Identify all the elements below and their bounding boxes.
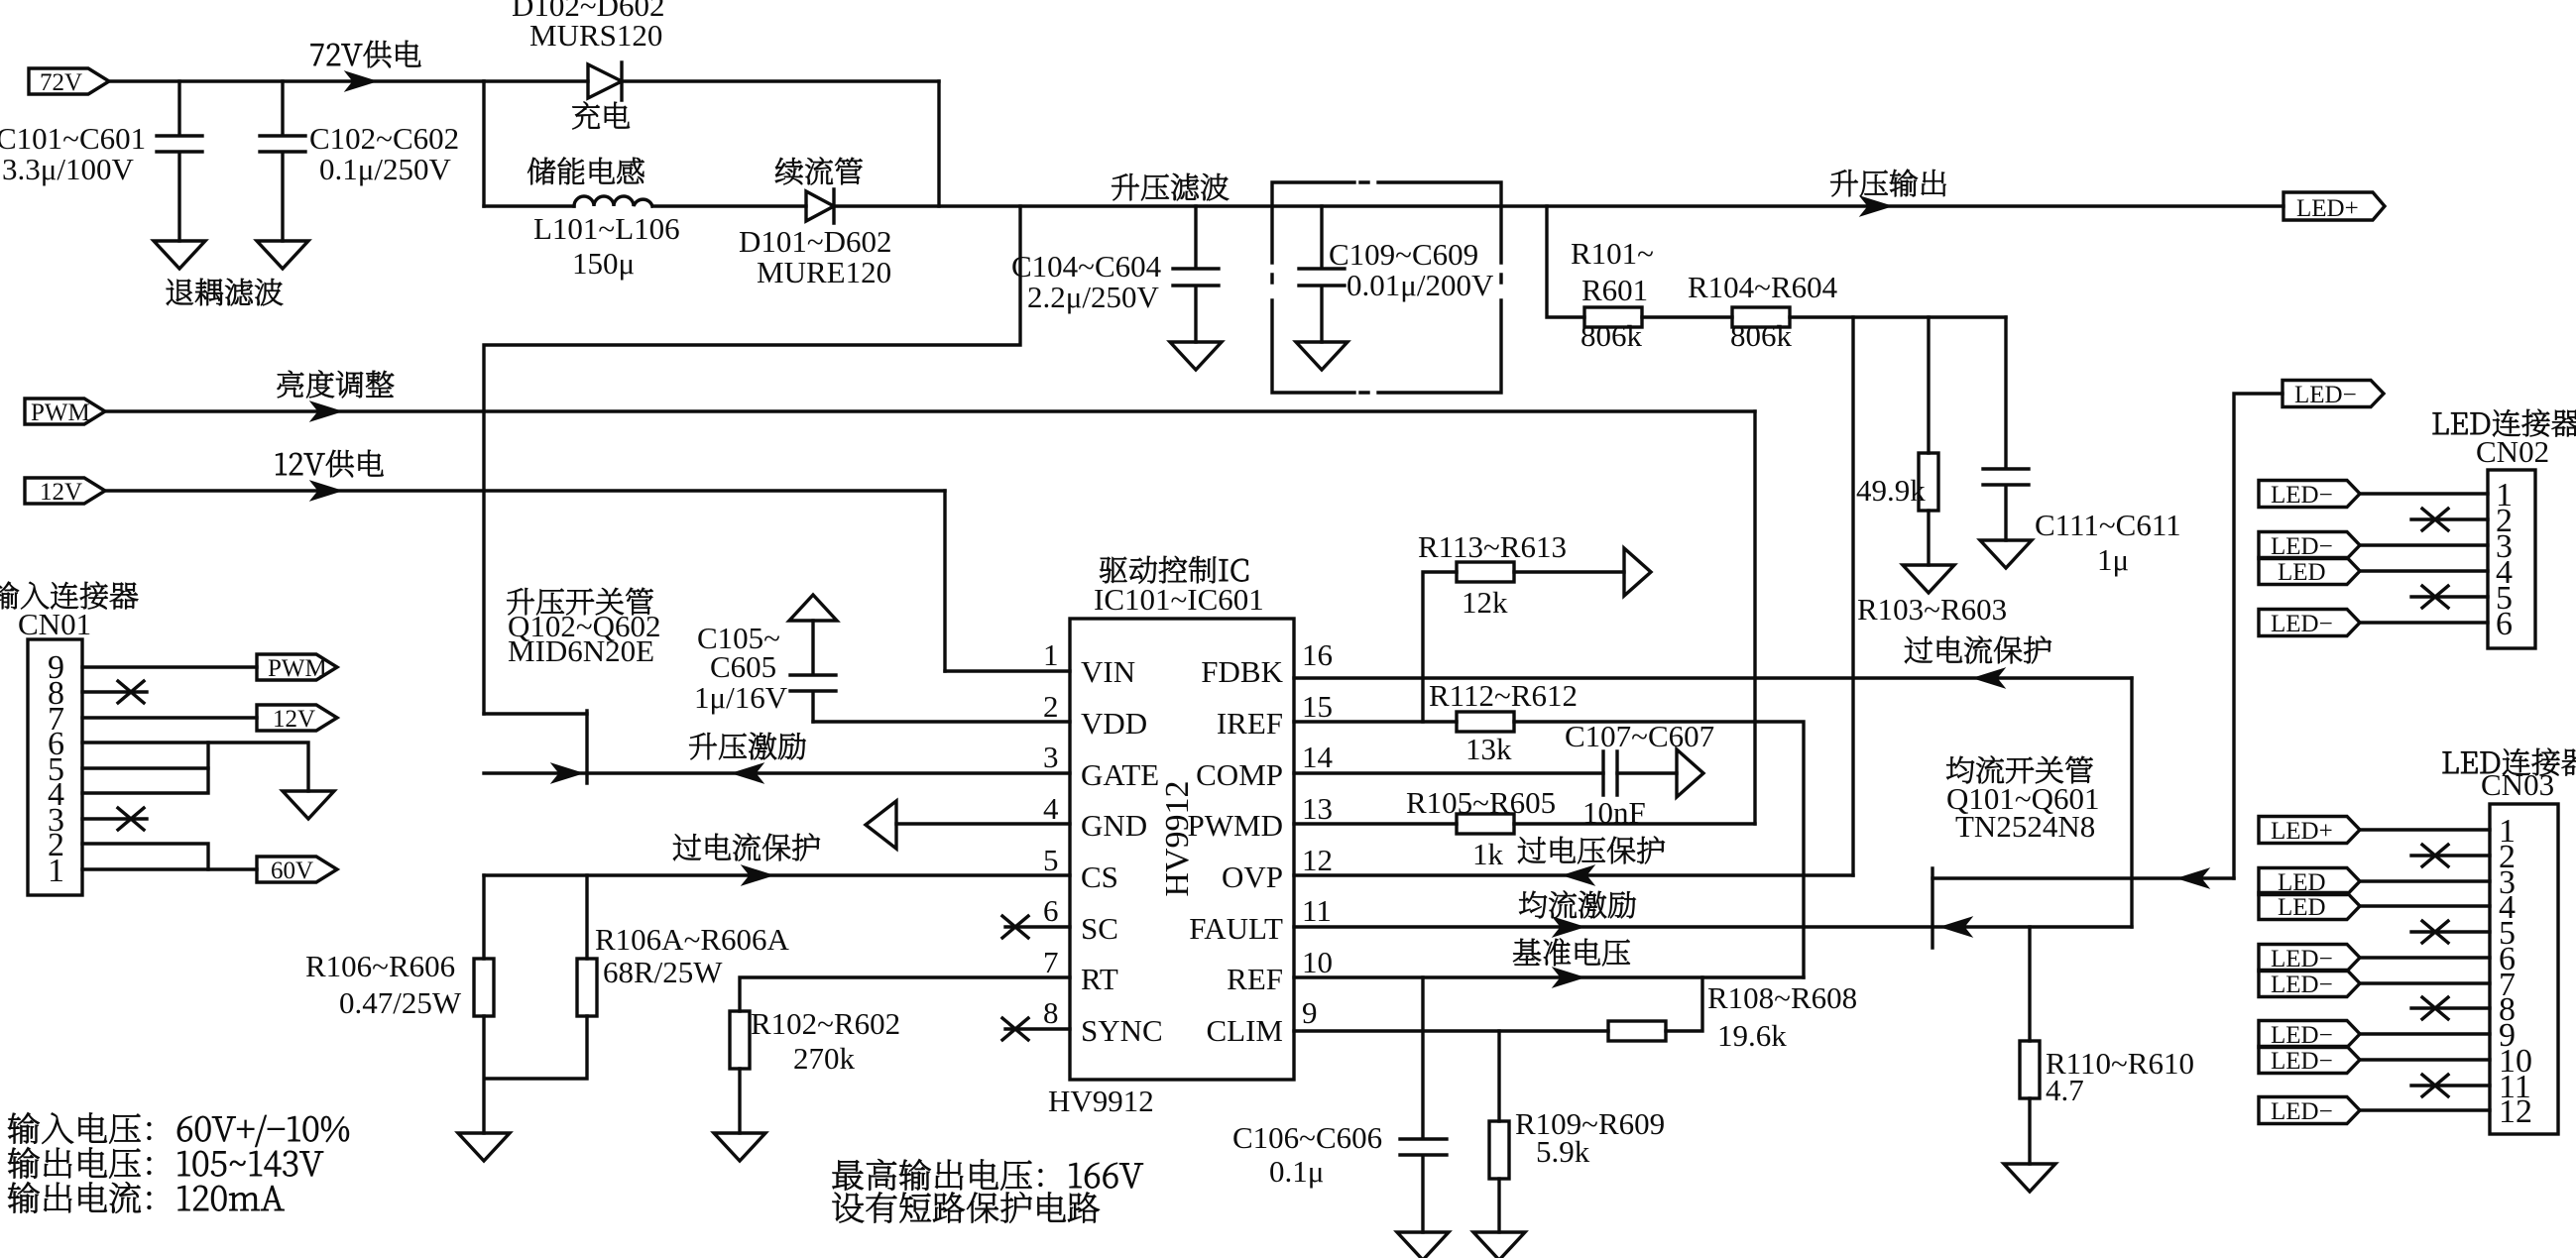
wire CN03 pin10 [2361,1058,2490,1061]
pin number 9 [1302,995,1318,1030]
inductor L101~L106 (storage inductor) [574,196,652,206]
connector tag LED- (CN03 pin9) [2259,1021,2360,1050]
connector tag LED- (CN03 pin12) [2259,1097,2360,1126]
connector tag LED+ [2283,192,2385,222]
wire CN01 pin9 to PWM tag [82,665,257,668]
ground of C102 [257,241,308,269]
svg-text:OVP: OVP [1222,859,1283,894]
arrow on FAULT wire [1553,917,1584,937]
X mark CN03 pin5 [2422,921,2448,943]
svg-text:12V: 12V [273,706,315,733]
svg-text:C104~C604: C104~C604 [1011,249,1162,284]
svg-text:RT: RT [1081,962,1118,996]
arrow into Q101 gate [1940,917,1972,937]
arrow on CS wire [742,865,773,885]
wire CN03 pin11 stub [2411,1084,2490,1086]
wire CN03 pin8 stub [2411,1006,2490,1009]
label R103~R603 [1857,592,2007,627]
svg-text:C109~C609: C109~C609 [1329,237,1478,272]
pin number 16 [1302,637,1333,672]
wire CN03 pin3 [2361,879,2490,882]
wire CN03 pin7 [2361,981,2490,984]
diode D101 (freewheel diode) [806,189,834,223]
X mark pin3 not connected [118,808,144,830]
resistor R103~R603 49.9k (stem, body, stem) [1919,317,1938,565]
arrow GATE drive direction [732,763,763,783]
wire RT row to R102 [740,977,1070,1011]
svg-text:TN2524N8: TN2524N8 [1955,809,2095,844]
label 升压开关管 Q102~Q602 MID6N20E [507,588,660,668]
diode D102 (charge diode) [588,62,622,100]
pin number 14 [1302,740,1334,774]
capacitor C102 (wire, plates, stem) [260,81,305,241]
wire CN01 pin7 to 12V tag [82,716,257,719]
svg-text:150μ: 150μ [572,246,635,281]
connector tag 72V [29,68,109,96]
svg-text:13: 13 [1302,791,1333,826]
svg-text:LED−: LED− [2271,1048,2333,1075]
connector tag LED- (CN02 pin3) [2259,532,2360,561]
svg-text:HV9912: HV9912 [1048,1084,1154,1118]
label R109~R609 5.9k [1515,1106,1665,1169]
label 均流激励 [1519,891,1635,919]
wire SYNC pin8 stub [1005,1027,1070,1030]
label R113~R613 12k [1418,529,1567,620]
wire output rail to filter [834,204,2283,207]
wire 12V supply [105,489,945,492]
svg-text:LED: LED [2278,894,2326,921]
svg-text:49.9k: 49.9k [1856,473,1926,508]
svg-text:LED+: LED+ [2296,195,2359,222]
wire SC pin6 stub [1005,925,1070,928]
wire R102 bottom [738,1069,741,1133]
wire CS node down left leg [482,875,485,959]
svg-text:R601: R601 [1581,273,1648,307]
svg-text:HV9912: HV9912 [1159,780,1196,896]
wire CN03 pin4 [2361,904,2490,907]
svg-text:CLIM: CLIM [1207,1013,1284,1048]
wire CN03 pin1 [2361,828,2490,831]
svg-text:C111~C611: C111~C611 [2035,508,2181,542]
svg-text:13k: 13k [1465,732,1512,766]
pin number 10 [1302,945,1333,979]
resistor R106A~R606A [577,959,597,1016]
label 12V供电 [276,450,383,477]
direction triangle after R113 [1624,548,1651,596]
net label 72V供电 [311,41,421,67]
svg-text:SYNC: SYNC [1081,1013,1163,1048]
svg-text:12k: 12k [1462,585,1508,620]
svg-text:D101~D602: D101~D602 [739,224,892,259]
ground direction triangle on GND pin [866,801,896,849]
wire GND pin4 stub [896,822,1070,825]
resistor R108~R608 [1608,1021,1666,1041]
svg-text:16: 16 [1302,637,1333,672]
capacitor C104 (stem, plates) [1173,206,1219,342]
svg-text:8: 8 [1043,995,1059,1030]
wire R110 sense drop [2028,927,2031,1041]
connector tag PWM (CN01 side) [257,654,337,682]
wire CLIM row (pin9) [1294,1029,1608,1032]
label R102~R602 270k [751,1006,900,1076]
svg-text:FDBK: FDBK [1201,654,1283,689]
svg-text:PWM: PWM [31,400,90,426]
connector CN01 body [28,639,82,895]
svg-text:R112~R612: R112~R612 [1429,678,1578,713]
note max output voltage [833,1159,1143,1190]
svg-text:SC: SC [1081,911,1118,946]
svg-text:R104~R604: R104~R604 [1688,270,1838,304]
pin number 13 [1302,791,1333,826]
X mark CN03 pin11 [2422,1075,2448,1096]
svg-text:PWMD: PWMD [1188,808,1283,843]
svg-text:68R/25W: 68R/25W [603,955,723,989]
wire COMP row (pin14) [1294,771,1603,774]
note output voltage spec [8,1147,323,1178]
svg-text:R108~R608: R108~R608 [1707,980,1857,1015]
label 亮度调整 [278,371,394,399]
svg-text:LED−: LED− [2271,1098,2333,1125]
connector tag LED- (top) [2283,381,2384,409]
pin number 5 [1043,843,1059,877]
label 升压激励 [689,733,805,759]
arrow on OVP wire [1563,865,1594,885]
connector tag PWM [25,399,105,426]
capacitor C101 (wire, plates, stem) [157,81,202,241]
svg-text:CN03: CN03 [2481,767,2554,802]
wire CN02 pin5 stub [2411,595,2488,598]
svg-text:MID6N20E: MID6N20E [508,633,654,668]
ground of C101 [154,241,205,269]
wire CN03 pin2 stub [2411,854,2490,857]
svg-text:MURE120: MURE120 [757,255,891,289]
label R106~R606 0.47/25W [305,949,462,1020]
svg-text:6: 6 [1043,893,1059,928]
capacitor C111 (corner, plates, stem) [1983,317,2029,540]
wire FDBK corner down to source node [2130,678,2133,927]
pin number 3 [1043,740,1059,774]
connector tag LED (CN03 pin3) [2259,868,2360,897]
transistor Q102 channel bar [585,711,588,783]
label R110~R610 4.7 [2046,1046,2194,1107]
capacitor C106 (drop, plates, stem) [1400,977,1447,1232]
svg-text:5.9k: 5.9k [1536,1134,1590,1169]
wire CN03 pin6 [2361,956,2490,959]
ground of R110 [2004,1164,2055,1192]
svg-text:C106~C606: C106~C606 [1232,1120,1382,1155]
ground of C106 [1397,1232,1449,1258]
ground of 49.9k [1903,565,1954,593]
label LED连接器 CN02 [2433,409,2576,469]
connector tag LED+ (CN03 pin1) [2259,817,2360,846]
wire CN03 pin9 [2361,1032,2490,1035]
pin number 8 [1043,995,1059,1030]
resistor R112~R612 [1457,712,1514,732]
wire CN03 pin5 stub [2411,930,2490,933]
svg-text:0.1μ: 0.1μ [1269,1154,1324,1189]
resistor R104~R604 [1732,307,1790,327]
connector tag LED- (CN03 pin10) [2259,1047,2360,1076]
label 输入连接器 CN01 [0,582,138,641]
IC right pin labels [1188,654,1284,1048]
arrow into Q102 gate [551,763,583,783]
label 升压输出 [1830,170,1945,197]
svg-text:VDD: VDD [1081,706,1147,741]
X mark SC unused [1002,916,1028,938]
pin number 12 [1302,843,1333,877]
wire FAULT row (pin11) [1294,925,2132,928]
svg-text:1μ: 1μ [2097,542,2129,577]
connector tag LED- (CN02 pin1) [2259,481,2360,510]
svg-text:0.47/25W: 0.47/25W [339,985,462,1020]
svg-text:LED−: LED− [2271,611,2333,637]
wire CN01 pin6 to ground [82,743,308,791]
svg-text:R113~R613: R113~R613 [1418,529,1567,564]
label R104~R604 806k [1688,270,1838,353]
connector tag LED (CN02 pin4) [2259,558,2360,587]
capacitor C109 (stem, plates) [1299,206,1345,342]
pin number 11 [1302,893,1332,928]
label C107~C607 10nF [1565,719,1714,830]
label L101~L106 150μ [533,211,680,281]
svg-text:14: 14 [1302,740,1334,774]
label C102~C602 0.1μ/250V [309,121,459,186]
op-amp U1 driver IC HV9912 box [1070,619,1294,1080]
svg-text:COMP: COMP [1196,757,1283,792]
label 退耦滤波 [167,279,283,305]
wire PWMD row (pin13) [1294,822,1457,825]
wire R108 to REF node [1666,977,1702,1031]
label C104~C604 2.2μ/250V [1011,249,1162,314]
pin number 15 [1302,689,1333,724]
pin number 6 [1043,893,1059,928]
svg-text:7: 7 [1043,945,1059,979]
svg-text:IREF: IREF [1217,706,1283,741]
svg-text:12: 12 [1302,843,1333,877]
label 过电流保护 (FDBK) [1905,636,2051,664]
wire R110 bottom [2028,1098,2031,1164]
label C111~C611 1μ [2035,508,2181,577]
wire LED- bus riser [2234,394,2283,878]
svg-text:270k: 270k [793,1041,856,1076]
svg-text:R102~R602: R102~R602 [751,1006,900,1041]
transistor Q101 channel bar [1931,868,1933,948]
wire CN01 pin8 stub [82,690,147,693]
label 驱动控制IC IC101~IC601 [1094,556,1264,617]
svg-text:LED−: LED− [2271,972,2333,998]
label R112~R612 13k [1429,678,1578,766]
svg-text:C102~C602: C102~C602 [309,121,459,156]
wire between divider resistors [1642,315,1732,318]
connector tag LED- (CN02 pin6) [2259,610,2360,638]
label R101~ R601 806k [1571,236,1654,353]
arrow on drain wire [2177,868,2209,888]
connector tag LED- (CN03 pin7) [2259,971,2360,999]
svg-text:REF: REF [1227,962,1283,996]
svg-text:VIN: VIN [1081,654,1135,689]
connector CN03 body [2490,804,2558,1134]
wire IREF row (pin15) [1294,720,1457,723]
note output current spec [8,1182,284,1213]
svg-text:1μ/16V: 1μ/16V [694,680,788,715]
CN02 pin numbers 1-6 [2496,477,2513,642]
wire REF row (pin10) [1294,975,1804,978]
svg-text:2: 2 [1043,689,1059,724]
label 储能电感 [527,158,644,185]
arrow on 12V wire [310,481,342,501]
wire CN01 pin2 tie [82,844,208,869]
IC part number vertical HV9912 [1159,780,1196,896]
wire PWM dimming [105,409,1755,412]
label C105~ C605 1μ/16V [694,621,788,715]
wire CN02 pin4 [2361,569,2488,572]
svg-text:LED−: LED− [2294,382,2357,408]
X mark pin8 not connected [118,681,144,703]
wire CN03 pin12 [2361,1108,2490,1111]
pin number 7 [1043,945,1059,979]
label 过电流保护 (CS) [673,834,820,861]
wire CN02 pin6 [2361,621,2488,624]
label 续流管 [775,158,863,185]
label 升压滤波 [1112,173,1229,200]
svg-text:806k: 806k [1581,318,1643,353]
svg-text:1: 1 [48,853,64,889]
capacitor C107 series [1603,751,1617,795]
wire R106A top leg [585,875,588,959]
label 49.9k [1856,473,1926,508]
connector tag LED- (CN03 pin6) [2259,945,2360,973]
resistor R101~R601 [1584,307,1642,327]
svg-text:FAULT: FAULT [1189,911,1283,946]
svg-text:12: 12 [2499,1093,2532,1130]
arrow on FDBK wire [1973,668,2005,688]
wire joining R106/R106A bottoms [484,1016,587,1133]
label D102~D602 MURS120 [512,0,665,53]
boost cell box right edge [937,81,940,206]
power symbol above C105 [789,595,837,621]
svg-text:R105~R605: R105~R605 [1406,785,1556,820]
label 充电 [572,102,630,130]
label C101~C601 3.3μ/100V [0,121,146,186]
boost cell box left edge [482,81,485,206]
direction triangle after C107 [1677,749,1703,797]
wire FDBK row (pin16) [1294,676,2132,679]
wire 12V drop to VIN [943,491,946,671]
resistor R113~R613 [1457,562,1514,582]
wire IREF to V3 [1514,722,1804,977]
wire Q101 drain to LED- bus [1932,876,2234,879]
ground of R109 [1473,1232,1525,1258]
label 均流开关管 Q101~Q601 TN2524N8 [1946,756,2100,844]
label LED连接器 CN03 [2443,748,2576,802]
X mark CN03 pin8 [2422,997,2448,1019]
svg-text:LED−: LED− [2271,482,2333,509]
wire CN02 pin1 [2361,492,2488,495]
label R106A~R606A 68R/25W [595,922,790,989]
pin number 4 [1043,791,1059,826]
svg-text:GND: GND [1081,808,1147,843]
svg-text:R103~R603: R103~R603 [1857,592,2007,627]
connector tag LED (CN03 pin4) [2259,893,2360,922]
svg-text:R106A~R606A: R106A~R606A [595,922,790,957]
connector tag 12V [25,478,105,506]
X mark SYNC unused [1002,1018,1028,1040]
wire CN01 pin5 tie [82,766,208,769]
ground of R106 [458,1133,510,1161]
svg-text:CS: CS [1081,859,1118,894]
svg-text:0.1μ/250V: 0.1μ/250V [319,152,451,186]
svg-text:12V: 12V [40,479,82,506]
ground of CN01 pins 6-5-4 [283,791,334,819]
wire CS row (current sense) [484,873,1070,876]
svg-text:15: 15 [1302,689,1333,724]
svg-text:0.01μ/200V: 0.01μ/200V [1347,268,1494,302]
dash-dot box around C109 [1272,182,1501,393]
arrow on REF wire [1553,968,1584,987]
svg-text:11: 11 [1302,893,1332,928]
svg-text:806k: 806k [1730,318,1793,353]
svg-text:6: 6 [2496,606,2513,642]
wire OVP sense drop [1851,317,1854,875]
CN01 pin numbers 9-1 [48,649,64,889]
svg-text:CN01: CN01 [18,607,91,641]
svg-text:MURS120: MURS120 [529,18,662,53]
wire GATE row (boost drive) [484,771,1070,774]
svg-text:72V: 72V [40,69,82,96]
arrow on PWM wire [310,401,342,421]
label HV9912 below IC [1048,1084,1154,1118]
label 基准电压 [1513,939,1630,967]
svg-text:19.6k: 19.6k [1717,1018,1787,1053]
svg-text:4: 4 [1043,791,1059,826]
wire R113 branch up [1423,572,1457,722]
svg-text:3.3μ/100V: 3.3μ/100V [2,152,134,186]
svg-text:3: 3 [1043,740,1059,774]
svg-text:1k: 1k [1472,837,1504,871]
note input voltage spec [8,1112,349,1147]
boost cell box top edge with diode gap [484,79,939,82]
capacitor C105 (stem, plates, stem) [790,621,836,722]
svg-text:LED: LED [2278,559,2326,586]
pin number 1 [1043,637,1059,672]
label R105~R605 1k [1406,785,1556,871]
X mark CN03 pin2 [2422,845,2448,866]
wire VIN stub [945,669,1070,672]
wire CN01 pin4 tie [82,743,208,793]
wire CN01 pin1 to 60V tag [82,867,257,870]
label 过电压保护 [1518,837,1665,864]
ground of C111 [1980,540,2032,568]
svg-text:L101~L106: L101~L106 [533,211,680,246]
svg-text:60V: 60V [271,858,313,884]
svg-text:CN02: CN02 [2476,434,2549,469]
svg-text:GATE: GATE [1081,757,1159,792]
CN03 pin numbers 1-12 [2499,813,2532,1130]
wire C107 to buffer [1617,771,1677,774]
IC left pin labels [1081,654,1163,1048]
wire divider node [1790,315,2006,318]
X mark CN02 pin2 [2422,509,2448,530]
svg-text:1: 1 [1043,637,1059,672]
wire PWMD to PWM drop [1514,822,1755,825]
connector tag 60V (CN01 side) [257,857,337,884]
label C106~C606 0.1μ [1232,1120,1382,1189]
svg-text:10: 10 [1302,945,1333,979]
wire Q102 drain drop from rail [484,206,1020,714]
resistor R102~R602 [730,1011,750,1069]
svg-text:4.7: 4.7 [2046,1073,2084,1107]
wire output rail left part [484,204,806,207]
